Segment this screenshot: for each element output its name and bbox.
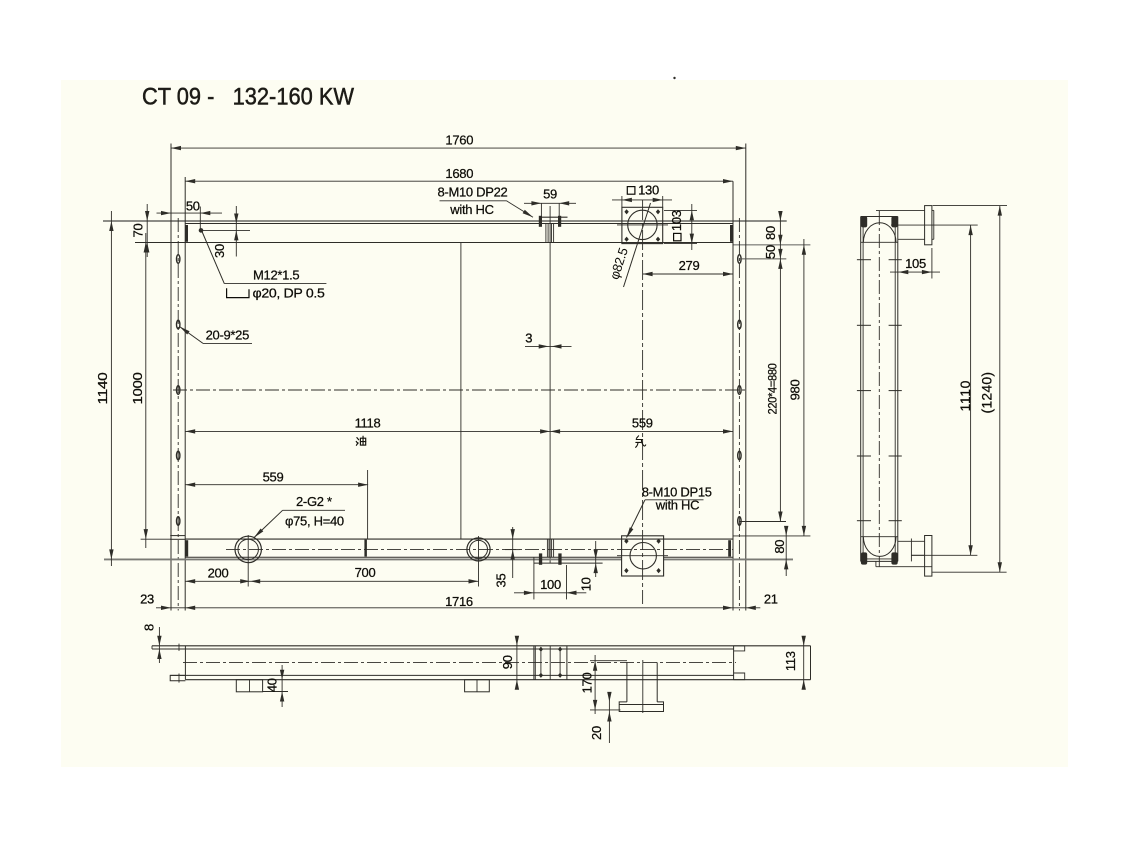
dim 1140 arrow top bbox=[109, 221, 113, 231]
side view left edge outer bbox=[860, 217, 862, 562]
dim 100 ext right bbox=[566, 565, 568, 599]
label 8-M10 DP22 underline bbox=[440, 200, 507, 202]
dim 100 ext left bbox=[533, 557, 535, 599]
dim 20 arrow top bbox=[607, 692, 611, 702]
dim 20 arrow bottom bbox=[607, 712, 611, 722]
right flange top ext line bbox=[733, 535, 810, 537]
bottom filler plate line bbox=[534, 562, 603, 564]
dim 103 square symbol bbox=[674, 233, 681, 240]
dim 100 line bbox=[514, 592, 586, 594]
top filler tube line 3 bbox=[551, 224, 553, 243]
top filler tube line 2 bbox=[547, 224, 549, 243]
dim 23 arrow right bbox=[185, 606, 195, 610]
bv filler left edge 2 bbox=[534, 646, 536, 680]
bottom tank bottom inner line left bbox=[185, 556, 621, 558]
main view horizontal centerline bbox=[173, 389, 746, 391]
dim 170 arrow bottom bbox=[593, 700, 597, 710]
bottom filler tube line 3 bbox=[551, 539, 553, 557]
dim 113 arrow top bbox=[802, 636, 806, 646]
dim 130 arrow right bbox=[653, 198, 663, 202]
right bracket hole 4 bbox=[738, 451, 741, 460]
bv filler center line bbox=[549, 646, 551, 680]
flange U2 bolt top-right bbox=[656, 539, 660, 544]
side view fin tick left 2 bbox=[857, 324, 871, 326]
svg-text:90: 90 bbox=[500, 655, 515, 669]
svg-text:700: 700 bbox=[355, 565, 376, 580]
svg-text:59: 59 bbox=[543, 187, 557, 202]
bottom view top edge bbox=[152, 645, 811, 647]
dim 1118 arrow mid-left bbox=[540, 429, 550, 433]
dim 50 arrow left bbox=[161, 211, 171, 215]
dim 8 arrow bottom bbox=[157, 649, 161, 659]
dim 3 arrow left bbox=[539, 344, 549, 348]
svg-text:80: 80 bbox=[763, 226, 778, 240]
side view top weld right bbox=[891, 216, 897, 227]
side top port flange rect bbox=[925, 206, 932, 245]
svg-text:(1240): (1240) bbox=[979, 372, 995, 414]
dim 170 line bbox=[594, 655, 596, 714]
left bracket centerline bbox=[177, 218, 179, 611]
left bracket hole 4 bbox=[177, 451, 180, 460]
svg-text:170: 170 bbox=[579, 673, 594, 694]
flange U2 bolt bottom-left bbox=[624, 568, 628, 573]
dim 50 arrow right bbox=[200, 211, 210, 215]
side view centerline bbox=[878, 211, 880, 567]
dim 21 arrow right bbox=[746, 606, 756, 610]
svg-text:φ20, DP 0.5: φ20, DP 0.5 bbox=[253, 286, 325, 301]
dim 980 arrow top bbox=[802, 245, 806, 255]
dim 80/50 arrow mid bbox=[778, 235, 782, 245]
dim 279 line bbox=[643, 273, 733, 275]
dim 8 line bbox=[158, 627, 160, 663]
top filler bolt left bbox=[539, 216, 542, 227]
M12 hole line bbox=[201, 229, 250, 231]
gas character bbox=[636, 436, 646, 448]
dim 10 line bbox=[595, 541, 597, 577]
svg-text:8-M10 DP22: 8-M10 DP22 bbox=[438, 184, 508, 199]
side bottom port vertical bbox=[910, 539, 912, 562]
bv port tube center bbox=[642, 660, 644, 713]
dim 1000 arrow bottom bbox=[144, 529, 148, 539]
dim 1240 arrow top bbox=[998, 206, 1002, 216]
bottom filler bolt right bbox=[558, 553, 561, 564]
side bottom port mid line bbox=[911, 554, 924, 556]
flange U1 center cross bbox=[617, 224, 668, 226]
dim 40 arrow bottom bbox=[280, 692, 284, 702]
left bracket inner edge bbox=[184, 177, 186, 611]
bottom view foot 2 mid line bbox=[476, 680, 478, 692]
dim 100 arrow left bbox=[524, 591, 534, 595]
right bracket hole 3 bbox=[738, 386, 741, 395]
svg-text:35: 35 bbox=[494, 574, 509, 588]
side view fin tick right 3 bbox=[889, 390, 902, 392]
side view top dome arc bbox=[863, 223, 896, 243]
dim 3 arrow right bbox=[552, 344, 562, 348]
bottom tank bottom edge right (gray) bbox=[664, 558, 793, 560]
dim 1110 arrow top bbox=[968, 225, 972, 235]
flange U1 bolt top-left bbox=[624, 209, 628, 214]
dim 113 line bbox=[803, 638, 805, 687]
label 2-G2 leader arrowhead bbox=[254, 529, 263, 538]
dim 200 arrow right bbox=[240, 579, 250, 583]
side view bottom tank top line bbox=[861, 536, 898, 538]
port P1 inner circle bbox=[238, 539, 258, 559]
right bracket inner edge bbox=[732, 181, 734, 610]
side top port tube bottom line bbox=[898, 238, 925, 240]
svg-text:30: 30 bbox=[212, 244, 227, 258]
dim 90 arrow bottom bbox=[515, 680, 519, 690]
svg-text:80: 80 bbox=[772, 540, 787, 554]
label 8-M10 DP22 leader arrowhead bbox=[523, 210, 533, 218]
bottom view left foot tab bbox=[170, 675, 185, 680]
weld bar bottom-right bbox=[728, 540, 731, 556]
side top port flange step bbox=[932, 209, 934, 211]
dim 130 square symbol bbox=[627, 187, 635, 195]
dim 105 line bbox=[890, 271, 940, 273]
left bracket hole 5 bbox=[177, 517, 180, 526]
dim 130 arrow left bbox=[622, 198, 632, 202]
svg-text:21: 21 bbox=[764, 591, 778, 606]
dim 980 line bbox=[803, 239, 805, 536]
svg-text:279: 279 bbox=[679, 258, 700, 273]
bv filler bolt tr bbox=[558, 647, 562, 652]
bottom tank centerline bbox=[226, 549, 733, 551]
dim 103 arrow bottom bbox=[690, 234, 694, 244]
side view fin tick right 2 bbox=[889, 324, 902, 326]
dim 559 bottom line bbox=[185, 484, 368, 486]
bottom view centerline bbox=[183, 661, 736, 663]
side view bottom cap line bbox=[861, 560, 898, 562]
weld bar bottom-left bbox=[185, 540, 188, 556]
side view top cap line bbox=[861, 216, 898, 218]
dim 70 arrow bottom bbox=[145, 243, 149, 253]
dim 35 arrow bottom bbox=[511, 550, 515, 560]
svg-text:20-9*25: 20-9*25 bbox=[206, 327, 250, 342]
left bracket outer edge bbox=[170, 144, 172, 611]
dim 80 bottom line bbox=[785, 530, 787, 576]
svg-text:100: 100 bbox=[540, 577, 561, 592]
bottom filler tube line 1 bbox=[546, 539, 548, 557]
svg-text:559: 559 bbox=[263, 470, 284, 485]
core seam vertical bbox=[460, 243, 462, 540]
side bottom bracket vertical bbox=[875, 561, 877, 566]
bottom view foot 2 bbox=[465, 680, 490, 692]
dim 1118-559 line bbox=[185, 430, 733, 432]
svg-text:980: 980 bbox=[788, 380, 803, 401]
label 2-G2 leader bbox=[254, 510, 283, 537]
side view fin tick left 4 bbox=[857, 455, 871, 457]
svg-text:with HC: with HC bbox=[449, 202, 493, 217]
dim 103 ext bottom bbox=[664, 243, 697, 245]
dim 30 arrow bottom bbox=[234, 230, 238, 240]
svg-text:1110: 1110 bbox=[957, 380, 973, 411]
dim 40 ext line bbox=[263, 691, 288, 693]
right bracket bottom ext line (gray) bbox=[733, 244, 810, 246]
right bracket outer edge bbox=[745, 144, 747, 611]
bottom view right edge bbox=[810, 646, 812, 680]
dim 1760 line bbox=[171, 147, 746, 149]
dim 220x4 arrow top bbox=[778, 259, 782, 269]
top filler cap plate bbox=[542, 216, 568, 218]
flange U1 circle bbox=[628, 210, 657, 239]
label phi82.5 leader bbox=[624, 203, 651, 287]
left bracket hole 3 bbox=[177, 386, 180, 395]
dim 220x4 arrow bottom bbox=[778, 512, 782, 522]
right port centerline vertical bbox=[642, 200, 644, 604]
side view right edge inner bbox=[894, 217, 896, 562]
dim 980 arrow bottom bbox=[802, 526, 806, 536]
bottom view foot 1 mid line bbox=[249, 680, 251, 692]
M12 hole dot bbox=[199, 228, 204, 233]
svg-text:8: 8 bbox=[142, 624, 157, 631]
bv filler bolt line left bbox=[540, 649, 542, 675]
svg-text:1680: 1680 bbox=[445, 166, 473, 181]
dim 50 ext vertical bbox=[199, 207, 201, 231]
dim 1240 top ext line bbox=[933, 205, 1007, 207]
svg-text:10: 10 bbox=[579, 577, 594, 591]
dim 700 arrow left bbox=[250, 579, 260, 583]
right bracket hole 2 bbox=[738, 320, 741, 329]
dim 8 arrow top bbox=[157, 636, 161, 646]
dim 279 arrow left bbox=[643, 272, 653, 276]
main view top tank inner top line bbox=[185, 223, 733, 225]
dim 90 arrow top bbox=[515, 636, 519, 646]
right bracket hole 1 bbox=[738, 255, 741, 264]
left bracket foot top line bbox=[170, 535, 185, 537]
oil character bbox=[356, 436, 365, 445]
dim 1118 arrow left bbox=[185, 429, 195, 433]
side view top dome base line bbox=[861, 241, 898, 243]
flange U2 circle bbox=[630, 543, 656, 569]
svg-text:1716: 1716 bbox=[445, 594, 473, 609]
dim 103 ext top bbox=[664, 209, 697, 211]
dim 1140 arrow bottom bbox=[109, 549, 113, 559]
svg-text:M12*1.5: M12*1.5 bbox=[253, 268, 299, 283]
bottom view second line bbox=[152, 648, 734, 650]
svg-text:1000: 1000 bbox=[130, 372, 145, 404]
port P2 inner circle bbox=[470, 540, 488, 558]
bottom view bottom edge bbox=[185, 679, 810, 681]
flange U1 bolt bottom-left bbox=[624, 237, 628, 242]
side view fin tick right 1 bbox=[889, 259, 902, 261]
flange U2 bolt bottom-right bbox=[656, 568, 660, 573]
label 20-9x25 underline bbox=[203, 342, 252, 344]
stray dot bbox=[673, 77, 675, 79]
dim 1240 arrow bottom bbox=[998, 562, 1002, 572]
bottom view right tab bottom bbox=[734, 673, 745, 680]
label 20-9x25 leader bbox=[180, 327, 204, 344]
dim 50 line bbox=[157, 212, 223, 214]
dim 30 arrow top bbox=[234, 214, 238, 224]
svg-text:1118: 1118 bbox=[355, 415, 381, 430]
dim 1680 line bbox=[185, 180, 733, 182]
dim 200 arrow left bbox=[185, 579, 195, 583]
dim 105 arrow right bbox=[922, 270, 932, 274]
flange U1 square bbox=[622, 207, 663, 243]
dim 20 line bbox=[608, 695, 610, 743]
dim 1240 line bbox=[999, 206, 1001, 573]
svg-text:40: 40 bbox=[264, 678, 279, 692]
bottom filler tube line 2 bbox=[548, 539, 550, 557]
port P2 outer circle bbox=[467, 538, 490, 561]
label 20-9x25 leader arrowhead bbox=[180, 327, 190, 335]
svg-text:50: 50 bbox=[186, 199, 200, 214]
right hole1 ext line bbox=[739, 258, 786, 260]
dim 59 line bbox=[524, 202, 576, 204]
left bracket hole 2 bbox=[177, 320, 180, 329]
dim 1760 arrow left bbox=[171, 146, 181, 150]
weld bar top-left bbox=[185, 225, 188, 242]
flange U2 square bbox=[622, 536, 664, 576]
flange U2 center cross bbox=[617, 555, 668, 557]
bottom view left plate edge bbox=[184, 646, 186, 680]
svg-text:1760: 1760 bbox=[445, 133, 473, 148]
bottom view foot 1 bbox=[236, 680, 262, 692]
bv filler bolt bl bbox=[539, 673, 543, 678]
svg-text:200: 200 bbox=[208, 565, 229, 580]
dim 3 line bbox=[525, 345, 572, 347]
flange U1 bolt top-right bbox=[656, 209, 660, 214]
main view top tank top edge (gray) bbox=[103, 220, 787, 222]
flange U1 bolt bottom-right bbox=[656, 237, 660, 242]
side view fin tick left 1 bbox=[857, 259, 871, 261]
label 8-M10 DP22 leader bbox=[507, 201, 534, 218]
dim 10 arrow bottom bbox=[594, 563, 598, 573]
side view fin tick right 4 bbox=[889, 455, 902, 457]
dim 1140 line bbox=[110, 211, 112, 566]
dim 1680 arrow left bbox=[185, 179, 195, 183]
right hole5 ext line bbox=[739, 521, 786, 523]
bv port flange top line bbox=[619, 704, 663, 706]
dim 21 arrow left bbox=[723, 606, 733, 610]
svg-text:φ75, H=40: φ75, H=40 bbox=[285, 513, 344, 528]
dim 113 arrow bottom bbox=[802, 680, 806, 690]
side view right edge outer bbox=[897, 217, 899, 562]
flange U2 bolt top-left bbox=[624, 539, 628, 544]
label M12 underline bbox=[224, 283, 326, 285]
dim 103 line bbox=[691, 204, 693, 250]
dim 59 ext left bbox=[540, 203, 542, 218]
dim 1000 arrow top bbox=[144, 243, 148, 253]
label 8-M10 DP15 arrowhead bbox=[627, 527, 634, 538]
svg-text:1140: 1140 bbox=[95, 372, 110, 404]
svg-text:3: 3 bbox=[525, 330, 532, 345]
dim 559 arrow mid-right bbox=[550, 429, 560, 433]
dim 40 arrow top bbox=[280, 670, 284, 680]
dim 90 line bbox=[516, 638, 518, 687]
label 2-G2 underline bbox=[283, 509, 345, 511]
side view bottom dome arc bbox=[863, 537, 896, 557]
dim 200-700 line bbox=[185, 580, 478, 582]
dim 35 ext line bbox=[505, 549, 520, 551]
right bracket hole 5 bbox=[738, 517, 741, 526]
port P1 outer circle bbox=[235, 536, 261, 562]
side view top weld left bbox=[861, 216, 867, 227]
bv filler bolt br bbox=[558, 673, 562, 678]
bottom tank bottom edge / 1140 ext (gray) bbox=[104, 558, 622, 560]
side bottom port top line bbox=[898, 540, 925, 542]
top filler tube line 1 bbox=[545, 224, 547, 243]
side top port tube top line bbox=[876, 209, 925, 211]
dim 105 ext vertical bbox=[931, 248, 933, 279]
dim 100 arrow right bbox=[567, 591, 577, 595]
dim 1110 top ext line bbox=[891, 224, 978, 226]
side view fin tick left 5 bbox=[857, 520, 871, 522]
dim 50 arrow bottom bbox=[778, 249, 782, 259]
bottom filler bolt left bbox=[539, 553, 542, 564]
bv port flange bbox=[619, 702, 663, 712]
svg-text:113: 113 bbox=[783, 651, 798, 671]
svg-text:23: 23 bbox=[140, 591, 154, 606]
svg-text:20: 20 bbox=[589, 726, 604, 740]
top filler tube line 4 bbox=[553, 224, 555, 243]
dim 1680 arrow right bbox=[723, 179, 733, 183]
dim 1110 line bbox=[970, 225, 972, 555]
bottom view third line bbox=[170, 674, 733, 676]
main view top tank bottom edge bbox=[135, 242, 733, 244]
dim 105 arrow left bbox=[898, 270, 908, 274]
bv filler right edge bbox=[566, 646, 568, 680]
dim 559 bottom arrow left bbox=[185, 483, 195, 487]
dim 70 arrow top bbox=[145, 211, 149, 221]
dim 1000 line bbox=[145, 233, 147, 548]
label 8-M10 DP15 underline bbox=[645, 499, 704, 501]
bottom view left plate tick bbox=[178, 644, 180, 651]
dim 40 line bbox=[281, 665, 283, 707]
bv filler left edge bbox=[533, 646, 535, 680]
dim 1240 bottom ext line bbox=[932, 571, 1006, 573]
dim 80 bottom arrow top bbox=[784, 526, 788, 536]
bv filler bolt line right bbox=[559, 649, 561, 675]
dim 170 top ext bbox=[590, 660, 627, 662]
bottom view right tab top bbox=[734, 646, 745, 651]
dim 103 arrow top bbox=[690, 210, 694, 220]
bottom view left overhang end bbox=[151, 646, 153, 649]
svg-text:559: 559 bbox=[632, 415, 653, 430]
side view bottom inner line bbox=[862, 558, 897, 560]
port P1 center vertical bbox=[247, 535, 249, 587]
right bracket centerline bbox=[738, 218, 740, 611]
bottom filler tube line 4 bbox=[553, 539, 555, 557]
svg-text:CT 09 - 132-160 KW: CT 09 - 132-160 KW bbox=[142, 83, 354, 110]
svg-text:220*4=880: 220*4=880 bbox=[765, 363, 779, 414]
left bracket hole 1 bbox=[177, 255, 180, 264]
side view fin tick left 3 bbox=[857, 390, 871, 392]
bottom view left foot tick bbox=[178, 674, 180, 683]
side view fin tick right 5 bbox=[889, 520, 902, 522]
dim 10 arrow top bbox=[594, 549, 598, 559]
label counterbore symbol bbox=[227, 288, 249, 297]
dim 1110 bottom ext line bbox=[911, 554, 977, 556]
bv port tube right bbox=[656, 662, 658, 702]
side view bottom weld left bbox=[861, 552, 867, 564]
dim 279 arrow right bbox=[723, 272, 733, 276]
top filler bolt right bbox=[558, 216, 561, 227]
dim 130 ext right bbox=[662, 196, 664, 207]
weld bar top-right bbox=[730, 225, 733, 242]
side view bottom weld right bbox=[891, 552, 897, 564]
dim 80 bottom arrow bottom bbox=[784, 559, 788, 569]
svg-text:105: 105 bbox=[905, 256, 926, 271]
dim 130 ext left bbox=[621, 196, 623, 207]
dim 700 arrow right bbox=[469, 579, 479, 583]
dim 80 top arrow up bbox=[778, 211, 782, 221]
svg-text:70: 70 bbox=[130, 224, 145, 238]
dim 59 arrow right bbox=[559, 201, 569, 205]
bv filler bolt tl bbox=[539, 647, 543, 652]
dim 170 arrow top bbox=[593, 661, 597, 671]
dim 170 bottom ext bbox=[590, 709, 621, 711]
